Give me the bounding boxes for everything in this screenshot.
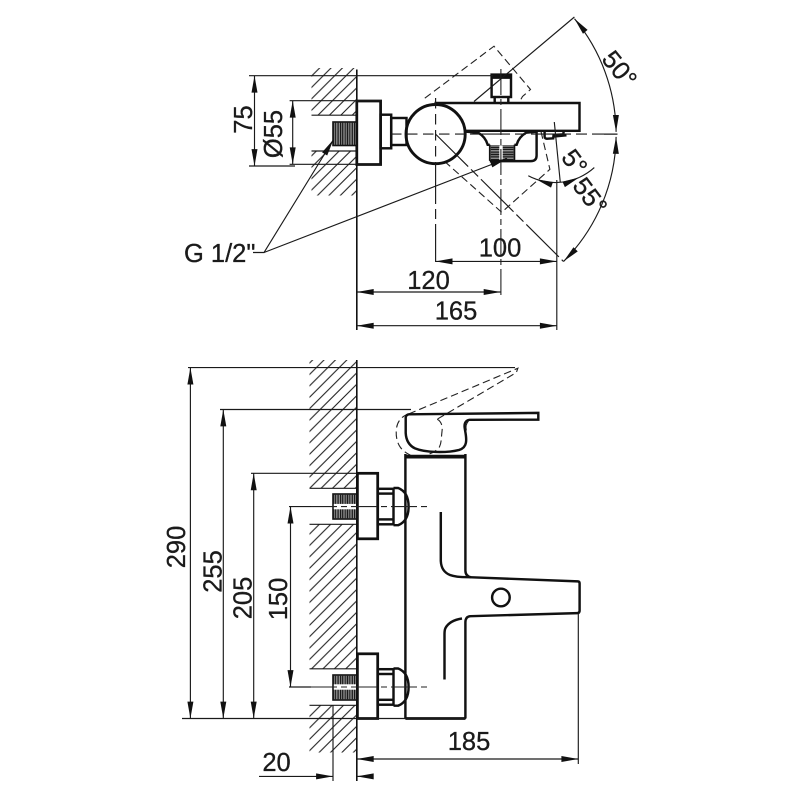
svg-text:Ø55: Ø55 [260,110,288,158]
svg-text:120: 120 [407,267,450,295]
svg-text:205: 205 [230,577,258,620]
svg-text:G 1/2": G 1/2" [184,240,255,268]
svg-text:150: 150 [265,578,293,621]
svg-text:100: 100 [479,235,522,263]
svg-text:255: 255 [200,550,228,593]
svg-text:290: 290 [163,526,191,569]
svg-text:20: 20 [262,749,290,777]
svg-text:75: 75 [230,105,258,133]
svg-text:185: 185 [448,728,491,756]
svg-text:165: 165 [435,298,478,326]
